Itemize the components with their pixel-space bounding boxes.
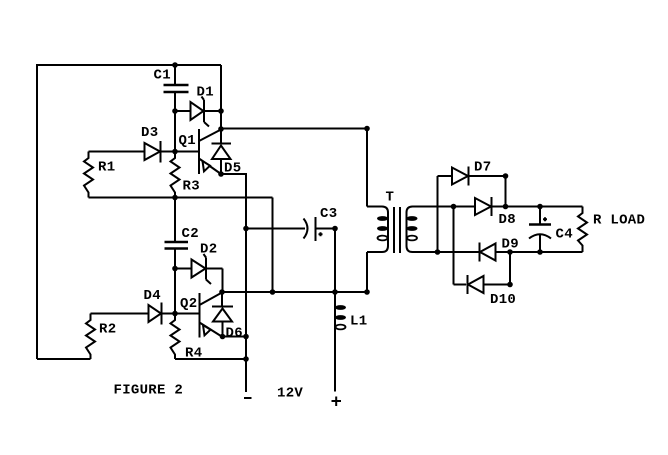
label D5 — [224, 161, 241, 177]
node C3 right — [332, 226, 338, 232]
label D4 — [144, 288, 161, 304]
wire secondary bottom row — [427, 251, 478, 253]
label Q2 — [180, 296, 197, 312]
label D9 — [502, 237, 519, 253]
wire D6 to emitter rail — [223, 336, 247, 338]
label R3 — [183, 179, 200, 195]
wire D7 cathode down — [505, 176, 507, 207]
label D7 — [474, 160, 491, 176]
wire right branch down — [272, 198, 274, 293]
svg-text:D7: D7 — [474, 160, 491, 176]
wire D9 D10 link — [509, 252, 511, 285]
node R4 bottom junction — [243, 356, 249, 362]
node C3 left — [243, 226, 249, 232]
diode D3 — [145, 141, 200, 163]
label Q1 — [179, 133, 196, 149]
label D2 — [200, 242, 217, 258]
node Q2 base — [172, 311, 178, 317]
svg-text:C3: C3 — [320, 206, 337, 222]
node C4 top — [537, 204, 543, 210]
svg-text:L1: L1 — [350, 314, 367, 330]
label C1 — [154, 68, 171, 84]
node R3 bottom — [172, 195, 178, 201]
label FIGURE 2 — [114, 383, 184, 399]
label R LOAD — [593, 213, 645, 229]
label R4 — [185, 346, 202, 362]
capacitor C1 — [164, 65, 189, 152]
label D3 — [141, 125, 158, 141]
label C3 — [320, 206, 337, 222]
diode D7 — [452, 167, 506, 186]
inductor L1 — [335, 292, 346, 392]
node primary top corner — [364, 126, 370, 132]
node primary bottom corner — [364, 289, 370, 295]
node D7 anode rail bottom — [435, 249, 441, 255]
label L1 — [350, 314, 367, 330]
resistor R4 — [171, 314, 180, 360]
terminal plus — [332, 397, 342, 407]
wire sec top down rail — [453, 207, 455, 285]
terminal minus — [244, 397, 252, 399]
label R1 — [98, 160, 115, 176]
svg-text:Q1: Q1 — [179, 133, 196, 149]
svg-text:12V: 12V — [277, 386, 303, 402]
capacitor C3 (polarized) — [246, 217, 335, 241]
label 12V — [277, 386, 303, 402]
diode D5 — [212, 129, 232, 174]
svg-text:D10: D10 — [490, 292, 516, 308]
transformer T primary winding — [367, 207, 388, 253]
svg-text:R1: R1 — [98, 160, 115, 176]
wire left border — [36, 64, 38, 359]
node C4 bottom — [537, 249, 543, 255]
svg-text:R3: R3 — [183, 179, 200, 195]
wire D2 row left — [175, 268, 192, 270]
wire top right vertical — [220, 65, 222, 129]
label D1 — [197, 85, 214, 101]
svg-text:Q2: Q2 — [180, 296, 197, 312]
wire primary bottom up — [366, 252, 368, 292]
svg-text:D3: D3 — [141, 125, 158, 141]
wire bias bottom row — [89, 197, 273, 199]
svg-text:FIGURE 2: FIGURE 2 — [114, 383, 184, 399]
wire D2 down to Q2 collector — [222, 269, 224, 293]
wire R1 top to D3 — [89, 151, 145, 153]
svg-text:C2: C2 — [182, 226, 199, 242]
node C1 top — [172, 62, 178, 68]
svg-text:D1: D1 — [197, 85, 214, 101]
wire R4 bottom row — [175, 358, 246, 360]
wire D7 row left — [438, 175, 453, 177]
diode D10 — [468, 275, 511, 294]
svg-text:R2: R2 — [99, 322, 116, 338]
label D8 — [499, 212, 516, 228]
wire D10 row left — [454, 284, 467, 286]
diode D6 — [212, 292, 233, 337]
node D6 bottom — [220, 334, 226, 340]
wire C3 down to bottom rail — [334, 229, 336, 293]
svg-text:T: T — [386, 190, 395, 206]
diode D8 — [475, 197, 583, 216]
wire Q1 collector to transformer — [221, 128, 367, 130]
node Q1 emitter — [218, 171, 224, 177]
wire bottom left to R2 — [37, 358, 91, 360]
node L1 top — [332, 289, 338, 295]
svg-text:D8: D8 — [499, 212, 516, 228]
svg-text:R LOAD: R LOAD — [593, 213, 645, 229]
capacitor C2 — [165, 198, 189, 314]
node Q1 collector — [218, 126, 224, 132]
wire D7 anode rail — [437, 176, 439, 252]
transistor Q1 — [199, 129, 221, 174]
capacitor C4 (polarized) — [529, 207, 551, 253]
node D1 left — [172, 108, 178, 114]
svg-text:C1: C1 — [154, 68, 171, 84]
node emitter rail D6 — [243, 334, 249, 340]
wire emitter to corner — [221, 173, 246, 175]
wire D1 row left — [175, 110, 191, 112]
svg-text:D6: D6 — [226, 326, 243, 342]
diode D9 — [478, 243, 583, 262]
node D1 right — [218, 108, 224, 114]
wire top rail — [37, 64, 221, 66]
svg-text:D2: D2 — [200, 242, 217, 258]
wire Q2 collector row — [222, 291, 367, 293]
node D8 out junction — [503, 204, 509, 210]
node secondary top branch — [451, 204, 457, 210]
wire primary top down — [366, 129, 368, 207]
node D10 anode — [507, 282, 513, 288]
diode D1 (zener) — [191, 97, 222, 127]
diode D2 (zener) — [192, 254, 223, 284]
diode D4 — [149, 303, 200, 325]
resistor R1 — [84, 152, 93, 198]
resistor R3 — [171, 152, 180, 198]
label R2 — [99, 322, 116, 338]
node D2 left — [172, 266, 178, 272]
node Q2 collector — [219, 289, 225, 295]
transformer T secondary winding — [407, 207, 428, 253]
wire R2 top to D4 — [91, 313, 149, 315]
wire secondary top row — [427, 206, 475, 208]
resistor R2 — [86, 314, 95, 360]
resistor R LOAD — [578, 207, 587, 253]
node Q1 base — [172, 149, 178, 155]
wire emitter rail down — [245, 173, 247, 392]
label C4 — [556, 227, 573, 243]
svg-text:C4: C4 — [556, 227, 573, 243]
label D6 — [226, 326, 243, 342]
transformer T core — [394, 207, 400, 253]
label T — [386, 190, 395, 206]
transistor Q2 — [200, 293, 223, 338]
label C2 — [182, 226, 199, 242]
node collector row left branch — [270, 289, 276, 295]
svg-text:D4: D4 — [144, 288, 161, 304]
node D9 anode junction — [507, 249, 513, 255]
node D7 cathode — [503, 173, 509, 179]
label D10 — [490, 292, 516, 308]
